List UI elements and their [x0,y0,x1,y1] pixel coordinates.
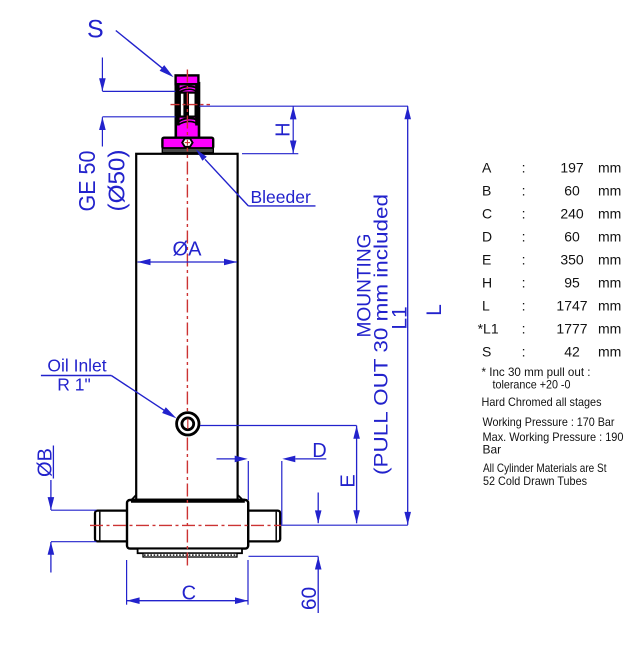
svg-text::: : [522,252,526,268]
C dimension [127,560,248,605]
svg-text:1747: 1747 [556,298,587,314]
svg-text:mm: mm [598,344,621,360]
GE 50 label [74,151,100,212]
svg-text:Hard Chromed all stages: Hard Chromed all stages [482,395,602,409]
base block [127,495,248,549]
svg-text::: : [522,229,526,245]
svg-text:mm: mm [598,298,621,314]
svg-text:C: C [482,205,492,221]
dimension table [478,159,622,359]
svg-text:D: D [482,229,492,245]
svg-text:S: S [87,16,104,44]
rod end top cap [176,75,199,84]
Oil Inlet label [41,356,111,395]
base bottom plate band [138,549,242,554]
svg-text:L: L [423,304,446,316]
svg-text:A: A [482,159,492,175]
oil inlet port [177,413,199,435]
svg-text::: : [522,159,526,175]
D dimension [217,440,327,525]
H dimension [242,106,298,153]
cylinder tube body [136,154,237,500]
(Ø50) label [104,150,130,212]
rod end flange [162,138,213,149]
bleeder leader arrow [196,149,249,206]
svg-text:mm: mm [598,182,621,198]
svg-text:Oil Inlet: Oil Inlet [47,356,106,376]
vertical centerline [186,70,188,568]
svg-text:(PULL OUT 30 mm included: (PULL OUT 30 mm included [372,194,393,475]
svg-text:C: C [182,583,196,605]
bearing center extension line [200,105,409,107]
svg-text:mm: mm [598,205,621,221]
bleeder hexagon [182,138,192,146]
eye centerline [171,104,211,106]
bearing eye housing side bands [176,84,199,126]
svg-text:H: H [482,275,492,291]
svg-text:E: E [338,474,360,487]
rod end stem/body [176,83,199,139]
bearing eye window [180,93,196,117]
svg-text:ØA: ØA [173,239,203,261]
svg-text::: : [522,321,526,337]
L label [423,304,446,316]
svg-text::: : [522,205,526,221]
svg-text:mm: mm [598,159,621,175]
right trunnion pin [245,511,281,542]
svg-text:95: 95 [564,275,580,291]
pin axis centerline [90,524,281,526]
svg-text:1777: 1777 [556,321,587,337]
ØA dimension [138,239,238,266]
svg-text:mm: mm [598,252,621,268]
S dimension lines [99,58,175,147]
60 dimension [249,493,322,614]
svg-text:Bar: Bar [483,443,502,457]
svg-text:R 1": R 1" [57,375,90,395]
bearing lower hatch curves [177,118,197,125]
pin center extension line [281,524,408,526]
bearing bore bar [183,93,189,117]
svg-text:mm: mm [598,321,621,337]
svg-text:*L1: *L1 [478,321,499,337]
svg-text:tolerance +20 -0: tolerance +20 -0 [493,377,571,391]
E dimension [338,426,360,524]
svg-text:H: H [273,122,295,136]
Bleeder label [248,187,315,207]
svg-text:240: 240 [560,205,584,221]
svg-text::: : [522,275,526,291]
svg-text:B: B [482,182,491,198]
oil inlet leader arrow [111,376,176,419]
svg-text:D: D [312,440,326,462]
svg-text:Bleeder: Bleeder [251,187,311,207]
svg-text:60: 60 [564,229,580,245]
svg-text:52 Cold Drawn Tubes: 52 Cold Drawn Tubes [483,474,587,488]
svg-text::: : [522,344,526,360]
notes [482,365,624,488]
gland dark band [162,148,213,153]
oil inlet extension line [200,425,357,427]
svg-text::: : [522,182,526,198]
svg-text:42: 42 [564,344,580,360]
svg-text:L: L [482,298,490,314]
base bottom hatched strip [143,553,237,557]
svg-text:mm: mm [598,275,621,291]
svg-text:All Cylinder Materials are St: All Cylinder Materials are St [483,461,607,475]
L1 L dimension line [404,106,411,525]
MOUNTING label [355,234,376,338]
S leader arrow [116,31,174,78]
left trunnion pin [95,511,131,542]
svg-text:mm: mm [598,229,621,245]
svg-text:E: E [482,252,491,268]
svg-text:197: 197 [560,159,584,175]
svg-text:(Ø50): (Ø50) [104,150,130,212]
ØB dimension [35,446,97,573]
svg-text:60: 60 [298,587,321,610]
svg-text:L1: L1 [389,306,412,329]
svg-text:Working Pressure : 170 Bar: Working Pressure : 170 Bar [483,415,615,429]
svg-text:60: 60 [564,182,580,198]
svg-text:350: 350 [560,252,584,268]
svg-text:S: S [482,344,491,360]
PULL OUT label [372,194,393,475]
svg-text::: : [522,298,526,314]
bearing upper hatch curves [177,86,197,92]
S label [87,16,104,44]
svg-text:GE 50: GE 50 [74,151,100,212]
L1 label [389,306,412,329]
svg-text:Max. Working Pressure : 190: Max. Working Pressure : 190 [483,430,624,444]
